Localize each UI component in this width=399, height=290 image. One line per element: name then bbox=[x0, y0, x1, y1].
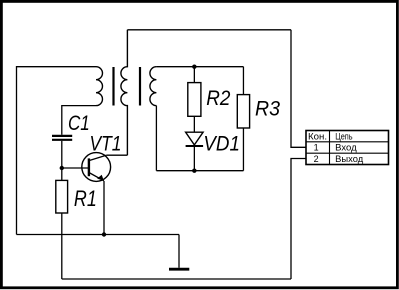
wire: ground drop bbox=[178, 235, 180, 268]
wire: R1 bottom lead down to bottom rail bbox=[61, 213, 63, 279]
connector table row lines bbox=[306, 142, 389, 153]
svg-text:VT1: VT1 bbox=[90, 132, 122, 155]
wire: R3 top lead bbox=[242, 67, 244, 95]
transformer middle winding with leads to top rail and collector bbox=[121, 30, 127, 155]
diode VD1 cathode bar bbox=[186, 145, 204, 147]
connector table outline bbox=[306, 131, 389, 165]
wire: lower-left horizontal bus to ground bbox=[17, 234, 180, 236]
svg-text:Выход: Выход bbox=[335, 154, 364, 164]
transformer core bar right bbox=[139, 67, 141, 106]
wire: secondary top lead to R2/R3 bbox=[156, 66, 243, 68]
wire: lower bus under R2/VD1/R3 bbox=[156, 170, 243, 172]
resistor R1 bbox=[56, 180, 68, 213]
resistor R3 bbox=[237, 95, 249, 128]
resistor R2 bbox=[188, 83, 201, 117]
wire: table pin 2 to right vertical lower bbox=[291, 159, 306, 280]
node: junction dot emitter/bus bbox=[102, 232, 106, 236]
wire: top rail from middle winding to right side bbox=[127, 29, 291, 31]
transformer core bar left bbox=[112, 67, 114, 106]
svg-text:Кон.: Кон. bbox=[308, 131, 327, 141]
transformer secondary winding (right) bbox=[150, 67, 156, 106]
svg-text:C1: C1 bbox=[68, 112, 90, 135]
diode VD1 triangle bbox=[186, 132, 204, 145]
connector table column line bbox=[329, 131, 331, 165]
node: junction dot C1/R1/base bbox=[60, 166, 64, 170]
wire: R2 top lead bbox=[193, 67, 195, 83]
transistor VT1 emitter stroke with arrow bbox=[89, 173, 104, 181]
svg-text:Вход: Вход bbox=[335, 143, 357, 153]
transistor VT1 circle bbox=[82, 153, 111, 182]
transistor VT1 base bar bbox=[88, 158, 90, 176]
wire: bottom rail from R1 lead to right vertical bbox=[62, 278, 291, 280]
svg-text:R3: R3 bbox=[255, 97, 280, 120]
capacitor C1 plates bbox=[52, 136, 72, 140]
wire: VD1 cathode lead to lower bus bbox=[193, 147, 195, 171]
svg-text:1: 1 bbox=[314, 143, 319, 153]
svg-text:Цепь: Цепь bbox=[335, 131, 353, 141]
node: junction dot below VD1 bbox=[192, 169, 196, 173]
ground bbox=[169, 268, 189, 271]
wire: collector to middle winding bottom bbox=[106, 154, 127, 156]
svg-text:R2: R2 bbox=[206, 87, 230, 110]
svg-text:2: 2 bbox=[314, 154, 319, 164]
wire: R2 bottom to VD1 anode bbox=[193, 116, 195, 132]
wire: emitter vertical down to lower-left bus bbox=[103, 181, 105, 235]
transistor VT1 collector stroke bbox=[89, 155, 106, 160]
wire: left vertical and top-left horizontal to primary winding bbox=[17, 67, 97, 235]
wire: right vertical upper to table pin 1 bbox=[291, 30, 306, 148]
svg-text:VD1: VD1 bbox=[203, 132, 240, 155]
node: junction dot above R2 bbox=[192, 65, 196, 69]
wire: base wire from junction to VT1 base bbox=[62, 167, 88, 169]
svg-text:R1: R1 bbox=[74, 186, 97, 211]
wire: primary winding bottom lead to C1 top bbox=[62, 106, 96, 135]
transformer primary winding (left) bbox=[96, 67, 102, 106]
wire: C1 bottom lead to base node bbox=[61, 141, 63, 168]
wire: R1 top lead from base junction bbox=[61, 168, 63, 180]
wire: secondary winding bottom lead down to lower bus bbox=[155, 106, 157, 171]
wire: R3 bottom lead bbox=[242, 128, 244, 171]
